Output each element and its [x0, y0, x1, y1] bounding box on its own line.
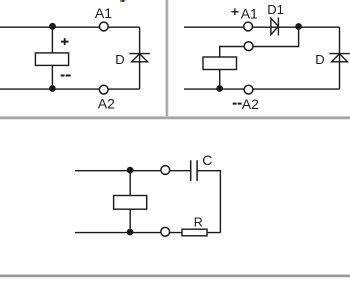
- svg-text:A1: A1: [95, 5, 112, 21]
- svg-text:A2: A2: [242, 96, 259, 112]
- svg-text:D: D: [315, 52, 324, 67]
- svg-text:D1: D1: [267, 2, 284, 17]
- svg-text:A1: A1: [241, 5, 258, 21]
- svg-text:D: D: [115, 52, 124, 67]
- svg-text:A2: A2: [98, 95, 115, 111]
- svg-text:R: R: [194, 215, 203, 229]
- svg-text:C: C: [202, 152, 212, 168]
